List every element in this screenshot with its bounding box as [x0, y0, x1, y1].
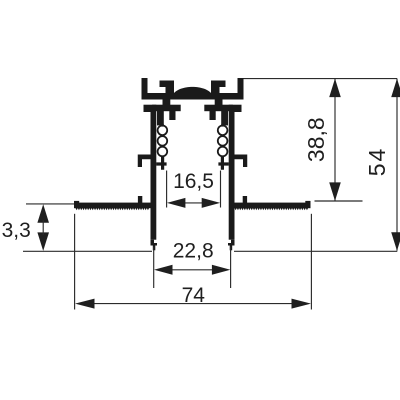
left anchor arms [152, 105, 181, 112]
top reference line [244, 78, 398, 80]
dim 38,8 line [334, 79, 336, 201]
dim 16,5 line [183, 202, 204, 204]
dim 22,8 left arrow [154, 265, 173, 275]
right anchor arms [204, 105, 233, 112]
right flange raised tab [243, 196, 247, 204]
right spring bottom anchor [218, 156, 228, 170]
dim 74 right ext line [310, 214, 312, 310]
dim 16,5 right ext line [220, 171, 222, 208]
right flange end lump [305, 201, 310, 204]
dim 74 line [92, 303, 294, 305]
svg-text:16,5: 16,5 [173, 170, 214, 193]
left anchor neck [163, 98, 171, 105]
dim 16,5 right arrow [202, 198, 221, 208]
cap left outer prong [142, 78, 148, 100]
cap bottom bar [142, 93, 244, 100]
cap left inner hook [160, 81, 175, 94]
right spring top link [221, 124, 223, 126]
left wall bottom bump [151, 243, 158, 246]
left anchor foot A [157, 111, 164, 125]
right anchor foot B [210, 111, 216, 120]
left flange [74, 203, 151, 209]
dim 22,8 line [171, 269, 213, 271]
svg-text:74: 74 [182, 284, 206, 307]
dim 3,3 link line [42, 220, 44, 235]
right flange [235, 203, 311, 209]
right ear [235, 105, 242, 112]
dim 54 up arrow [391, 79, 400, 98]
cap center arch [173, 87, 212, 95]
dim 54 down arrow [391, 232, 400, 251]
dim 16,5 left ext line [166, 171, 168, 208]
bottom ref line right [234, 250, 397, 252]
right wall spike [230, 245, 233, 250]
dim 38,8 down arrow [329, 182, 341, 201]
dim 22,8 right arrow [212, 265, 231, 275]
left wall lower neck [151, 240, 155, 246]
bottom ref line left [23, 250, 152, 252]
left flange end lump [74, 201, 79, 204]
right anchor foot A [221, 111, 228, 125]
dim 74 right arrow [292, 299, 312, 309]
dim 54 line [396, 79, 398, 251]
left spring bottom anchor [156, 156, 166, 170]
svg-text:38,8: 38,8 [303, 117, 329, 162]
dim 38,8 bottom ref line [315, 200, 363, 202]
dim 74 left arrow [75, 299, 95, 309]
right side tab [235, 155, 248, 168]
right anchor neck [215, 98, 223, 105]
left wall [151, 105, 157, 240]
DIMENSIONS [2, 79, 400, 310]
dim 16,5 left arrow [167, 198, 186, 208]
dim 38,8 up arrow [329, 79, 341, 98]
dim 74 left ext line [74, 214, 76, 310]
right flange teeth [235, 208, 309, 210]
left wall spike [153, 245, 156, 250]
left anchor foot B [169, 111, 175, 120]
left spring top link [161, 124, 163, 126]
dim 3,3 down arrow [37, 232, 49, 251]
left flange raised tab [138, 196, 142, 204]
right spring coils [218, 126, 228, 157]
dim 3,3 top ref line [26, 203, 74, 205]
left flange teeth [76, 208, 150, 210]
svg-text:3,3: 3,3 [2, 219, 31, 242]
left side tab [138, 155, 151, 168]
dim 22,8 left ext line [153, 247, 155, 289]
right wall lower neck [231, 240, 235, 246]
cap right inner hook [211, 81, 226, 94]
svg-text:54: 54 [364, 147, 390, 177]
right wall [229, 105, 235, 240]
dim 3,3 up arrow [37, 204, 49, 223]
left ear [144, 105, 151, 112]
right wall bottom bump [228, 243, 235, 246]
dim 22,8 right ext line [230, 247, 232, 289]
PROFILE BODY [74, 78, 311, 250]
left spring coils [158, 126, 168, 157]
cap right outer prong [238, 78, 244, 100]
svg-text:22,8: 22,8 [173, 239, 214, 262]
